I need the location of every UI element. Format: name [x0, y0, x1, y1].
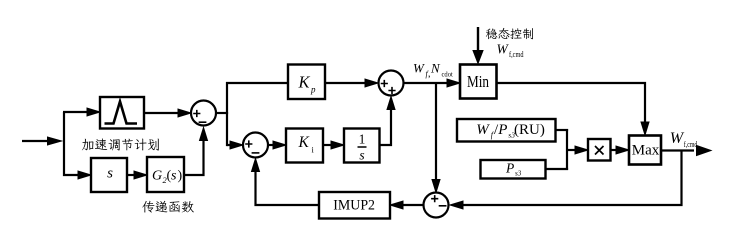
block Ps3: [481, 160, 546, 179]
svg-text:P: P: [505, 161, 514, 176]
svg-text:W: W: [413, 61, 425, 76]
block G2(s): [147, 157, 184, 192]
svg-text:W: W: [670, 130, 685, 147]
wire G2 to summer S1: [184, 128, 208, 176]
svg-text:K: K: [298, 134, 310, 151]
wire IMUP2 feedback to S2: [252, 159, 320, 206]
wire S1 output branch: [216, 82, 228, 146]
svg-text:1: 1: [359, 132, 366, 147]
steady-state control input arrow: [473, 27, 483, 64]
wire S2 to Ki: [268, 141, 286, 149]
block Ki: [286, 129, 323, 163]
svg-text:W: W: [476, 122, 490, 138]
svg-text:(RU): (RU): [514, 122, 545, 138]
svg-text:W: W: [497, 42, 510, 57]
svg-text:K: K: [298, 73, 311, 92]
label 加速调节计划: [82, 138, 159, 150]
wire s to G2: [127, 171, 147, 179]
summer S2: [243, 133, 268, 158]
wire Kp to summer S3: [325, 79, 378, 87]
wire branch to bottom summer S4: [432, 83, 440, 193]
label 稳态控制: [486, 28, 533, 39]
summer S4: [424, 193, 449, 218]
svg-text:IMUP2: IMUP2: [333, 198, 375, 214]
wire to block Kp: [226, 82, 288, 84]
wire Ki to integrator: [323, 141, 344, 149]
svg-text:P: P: [497, 122, 507, 138]
output arrow Wf,cmd: [661, 146, 711, 156]
block acceleration schedule (pulse shape): [100, 97, 144, 129]
multiplier X: [588, 139, 611, 161]
svg-text:cdot: cdot: [442, 70, 454, 79]
wire to block s: [78, 171, 91, 179]
wire output feedback to S4: [450, 151, 682, 210]
label 传递函数: [142, 201, 194, 213]
svg-text:N: N: [430, 61, 441, 76]
svg-text:s: s: [107, 166, 113, 182]
svg-text:Max: Max: [632, 143, 660, 159]
svg-text:G: G: [152, 169, 162, 184]
wire input branch: [64, 112, 80, 175]
summer S3: [379, 71, 404, 96]
input arrow: [22, 137, 62, 145]
block Kp: [288, 65, 325, 100]
wire S3 to Min: [404, 79, 461, 87]
wire integrator to summer S3: [380, 97, 396, 146]
svg-text:s3: s3: [515, 170, 522, 178]
wire pulse block to summer S1: [144, 109, 191, 117]
block Min: [460, 65, 497, 99]
block Wf/Ps3(RU): [457, 119, 556, 142]
svg-text:f,cmd: f,cmd: [509, 50, 524, 59]
svg-text:Min: Min: [467, 72, 489, 91]
svg-text:p: p: [310, 85, 316, 95]
summer S1: [191, 101, 216, 126]
wire Min to Max: [497, 83, 650, 135]
block integrator 1/s: [344, 129, 380, 163]
svg-text:s: s: [359, 148, 364, 163]
wire junction to multiplier: [566, 146, 588, 154]
svg-text:): ): [178, 169, 183, 184]
wire to shaping block: [63, 108, 100, 116]
label Wf,Ncdot: [413, 61, 454, 80]
svg-text:f,cmd: f,cmd: [684, 140, 698, 149]
wire ratio blocks junction: [546, 129, 569, 170]
wire to summer S2: [227, 141, 243, 149]
block s: [91, 158, 127, 192]
label Wf,cmd output: [670, 130, 698, 149]
label Wf,cmd top: [497, 42, 524, 60]
svg-text:s: s: [171, 169, 177, 184]
wire multiplier to Max: [611, 146, 630, 154]
block Max: [629, 136, 661, 165]
wire S4 to IMUP2: [390, 201, 424, 209]
block IMUP2: [319, 192, 390, 219]
